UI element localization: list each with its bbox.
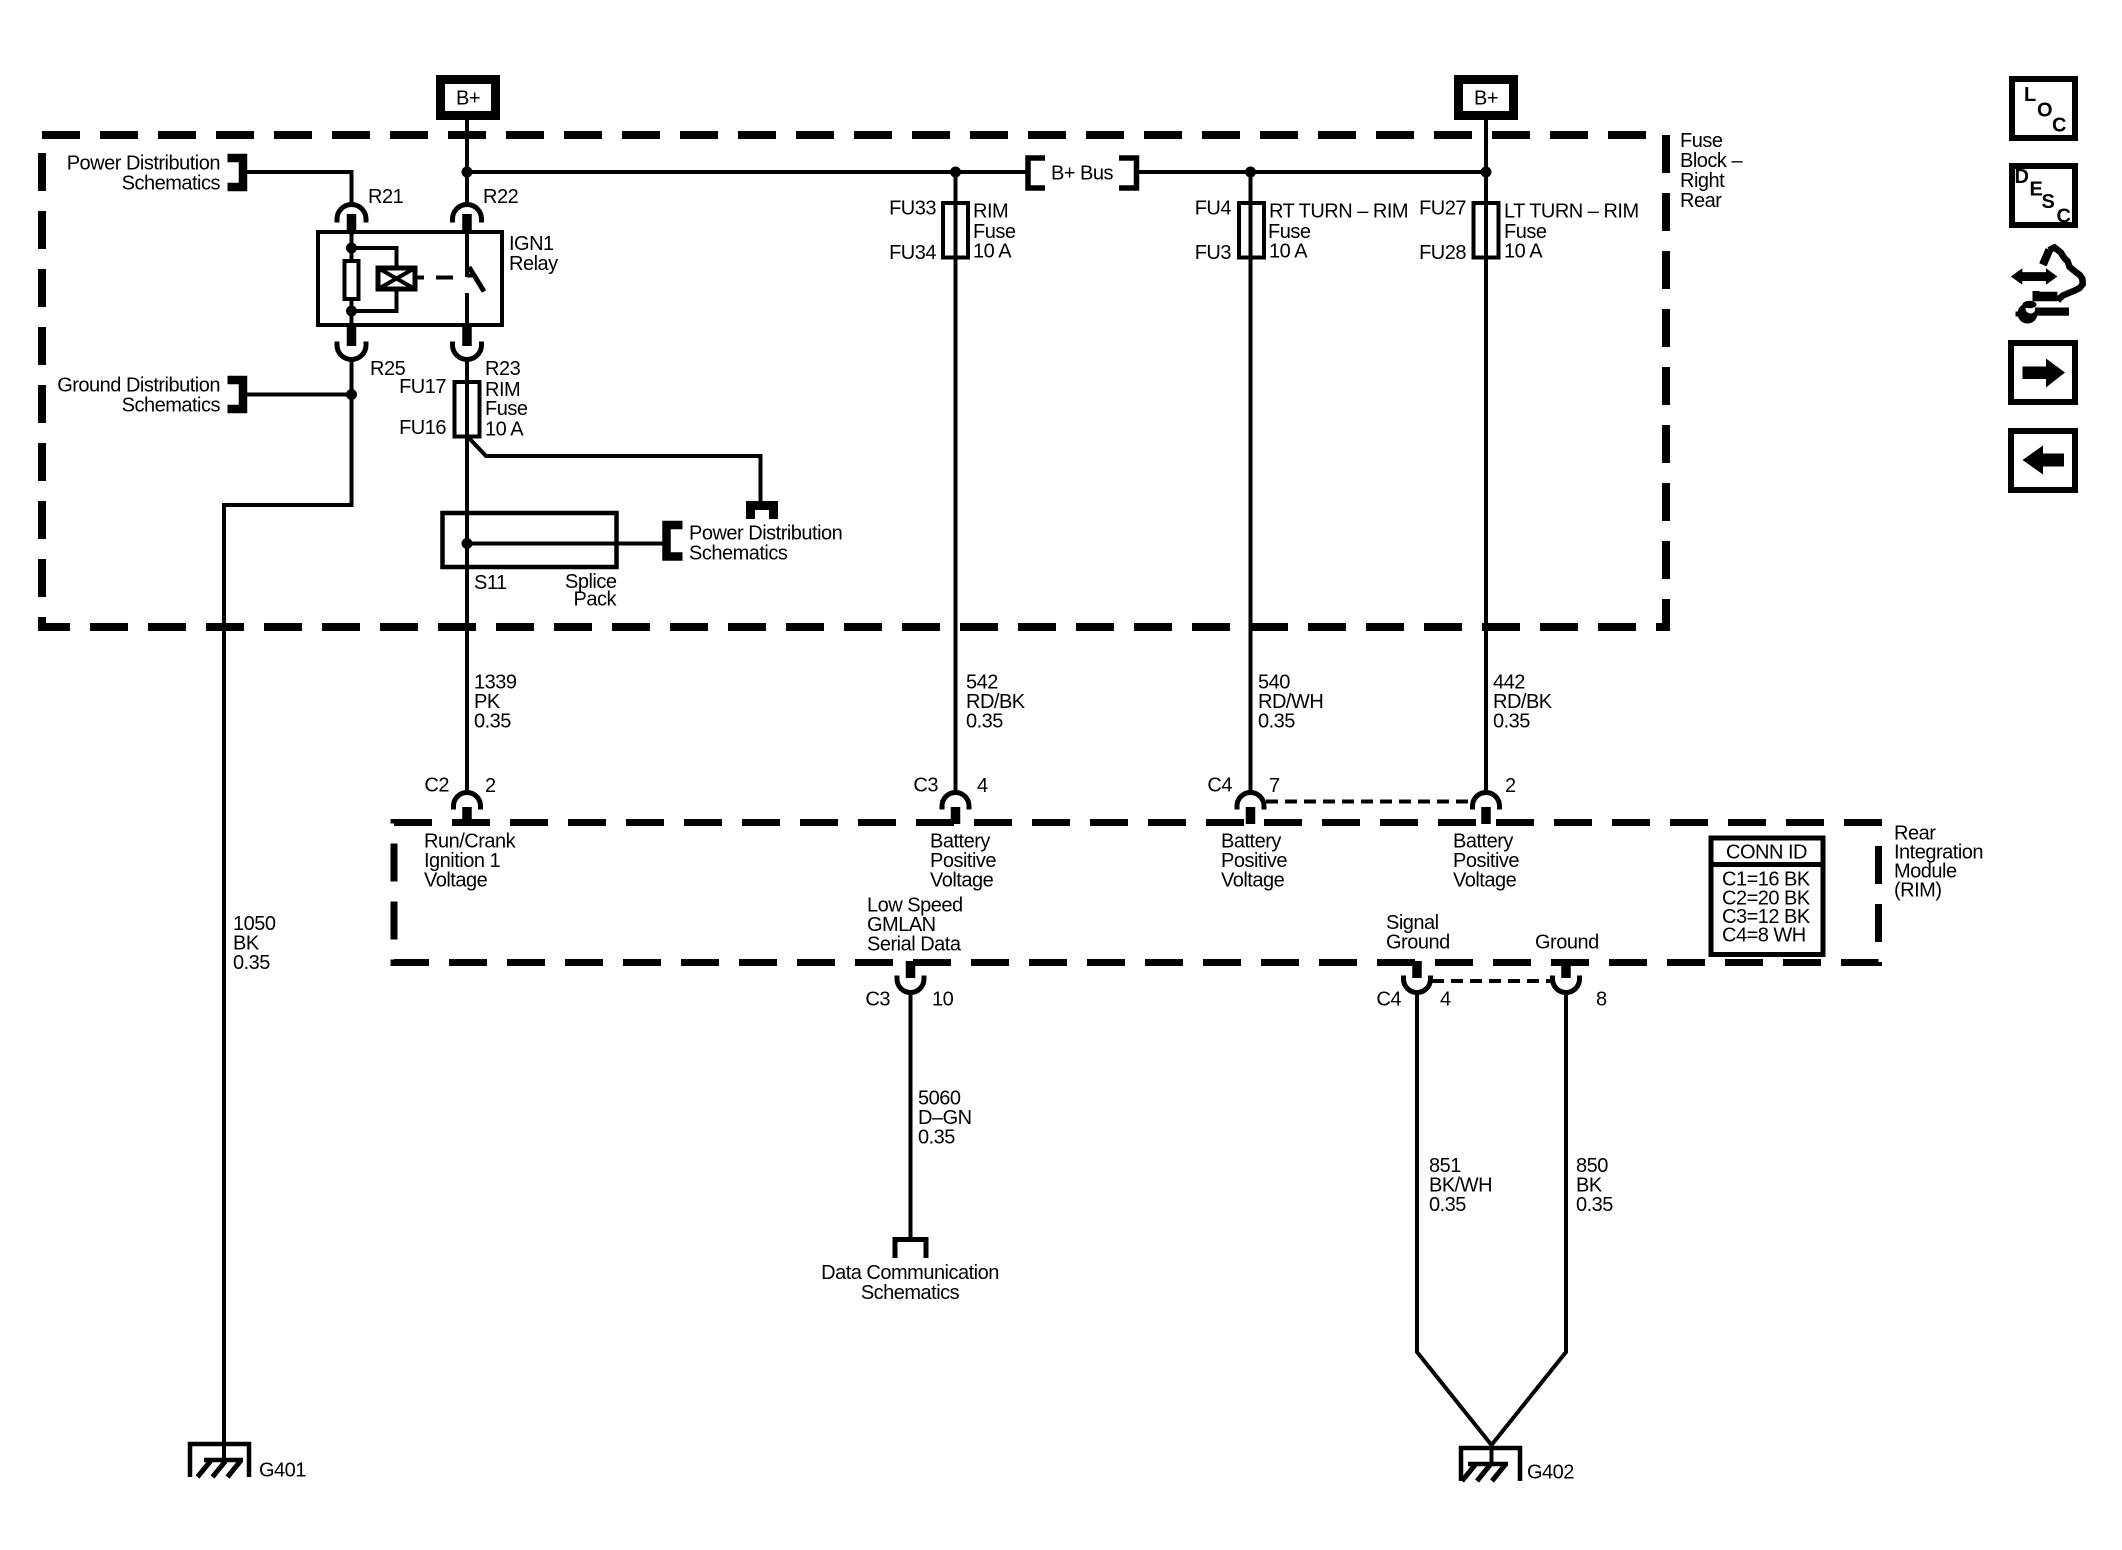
label Power Distribution Schematics (middle)	[689, 523, 842, 565]
svg-text:0.35: 0.35	[1576, 1194, 1613, 1216]
wire label 442 RD/BK 0.35	[1493, 672, 1553, 733]
svg-text:Schematics: Schematics	[689, 543, 788, 565]
wire: relay coil feed	[350, 232, 354, 261]
svg-text:G401: G401	[259, 1460, 306, 1482]
svg-text:B+ Bus: B+ Bus	[1051, 163, 1114, 185]
relay coil X-box	[378, 268, 415, 289]
wire: branch to coil box top	[352, 248, 397, 268]
label Fuse Block - Right Rear	[1680, 130, 1743, 212]
svg-text:Ground: Ground	[1386, 932, 1450, 954]
svg-text:Fuse: Fuse	[1680, 130, 1723, 152]
wire: B+ left down to R22 connector	[465, 120, 469, 205]
connector C4 pin 4 at RIM bottom	[1376, 961, 1451, 1011]
RIM module dashed box	[394, 823, 1879, 963]
relay coil resistor	[345, 261, 359, 299]
wire: col3 bus down through fuse to RIM connector C4	[1249, 172, 1253, 793]
svg-text:FU33: FU33	[889, 198, 936, 220]
svg-text:Schematics: Schematics	[861, 1282, 960, 1304]
svg-text:0.35: 0.35	[1493, 711, 1530, 733]
CONN ID table	[1711, 838, 1823, 955]
svg-text:Right: Right	[1680, 170, 1725, 192]
junction node top of coil	[346, 243, 357, 254]
svg-text:FU28: FU28	[1419, 242, 1466, 264]
connector C4 pin 7 at RIM	[1207, 775, 1280, 825]
svg-text:L: L	[2024, 84, 2036, 106]
wire: S11 to Power Distribution ref bracket	[467, 542, 666, 546]
junction node on bus at col4	[1481, 167, 1492, 178]
svg-text:R21: R21	[368, 186, 404, 208]
svg-text:Relay: Relay	[509, 253, 558, 275]
junction node on bus at col2	[950, 167, 961, 178]
svg-text:0.35: 0.35	[233, 952, 270, 974]
wire: B+ bus horizontal left segment	[467, 170, 1027, 174]
svg-text:FU17: FU17	[399, 376, 446, 398]
svg-text:0.35: 0.35	[966, 711, 1003, 733]
fuse FU27/FU28 LT TURN - RIM Fuse 10A	[1419, 198, 1639, 265]
connector C3 pin 10 at RIM bottom	[865, 961, 953, 1011]
connector pin 2 at RIM	[1473, 775, 1517, 824]
wire: B+ bus horizontal right segment	[1137, 170, 1486, 174]
svg-text:Power Distribution: Power Distribution	[67, 153, 220, 175]
dashed link between pin 7 and pin 2	[1266, 800, 1471, 804]
svg-text:10 A: 10 A	[1269, 241, 1308, 263]
svg-text:Pack: Pack	[574, 589, 618, 611]
svg-text:Fuse: Fuse	[485, 398, 528, 420]
wire: C3-10 down to Data Communication ref	[909, 993, 913, 1238]
svg-text:Ground: Ground	[1535, 932, 1599, 954]
wire label 851 BK/WH 0.35	[1429, 1155, 1492, 1216]
power symbol B+ (left)	[436, 75, 500, 120]
switch contact tick	[467, 274, 474, 278]
svg-text:RT TURN – RIM: RT TURN – RIM	[1269, 201, 1408, 223]
svg-text:S: S	[2042, 191, 2055, 213]
label Data Communication Schematics	[821, 1262, 999, 1304]
svg-text:Ground Distribution: Ground Distribution	[57, 375, 220, 397]
svg-text:FU4: FU4	[1195, 198, 1232, 220]
label Rear Integration Module (RIM)	[1894, 823, 1983, 902]
svg-text:Voltage: Voltage	[424, 870, 488, 892]
svg-text:Serial Data: Serial Data	[867, 934, 962, 956]
junction node at R25 wire	[346, 389, 357, 400]
pin label Battery Positive Voltage (C3-4)	[930, 831, 996, 892]
junction node on bus at col3	[1245, 167, 1256, 178]
svg-text:C3: C3	[913, 775, 938, 797]
splice pack S11 box	[443, 513, 617, 567]
svg-text:FU16: FU16	[399, 417, 446, 439]
svg-text:0.35: 0.35	[1258, 711, 1295, 733]
pin label Battery Positive Voltage (pin 2)	[1453, 831, 1519, 892]
svg-text:Rear: Rear	[1680, 190, 1722, 212]
svg-text:IGN1: IGN1	[509, 233, 554, 255]
svg-text:R23: R23	[485, 358, 521, 380]
connector C3 pin 4 at RIM	[913, 775, 988, 825]
bracket (down legs) of Power Distribution reference	[751, 506, 774, 520]
connector pin 8 at RIM bottom	[1553, 961, 1608, 1011]
pin label Battery Positive Voltage (C4-7)	[1221, 831, 1287, 892]
wire: B+ right down through fuse FU27 to RIM pin 2	[1484, 120, 1488, 793]
off-page reference: Ground Distribution Schematics	[57, 375, 220, 417]
svg-text:4: 4	[977, 775, 988, 797]
fuse FU17/FU16 RIM Fuse 10A	[399, 376, 528, 441]
svg-text:FU3: FU3	[1195, 242, 1232, 264]
wire label 5060 D-GN 0.35	[918, 1088, 972, 1149]
ground G402	[1461, 1448, 1574, 1484]
svg-text:Voltage: Voltage	[1453, 870, 1517, 892]
svg-text:C2: C2	[424, 775, 449, 797]
svg-text:7: 7	[1269, 775, 1280, 797]
wire: R25 down and across to ground run	[224, 360, 352, 1459]
wire: switch fixed contact from R22	[465, 232, 469, 277]
svg-text:R22: R22	[483, 186, 519, 208]
icon arrow left box	[2011, 431, 2075, 490]
svg-text:C4=8 WH: C4=8 WH	[1722, 925, 1806, 947]
icon LOC box	[2012, 79, 2075, 138]
svg-text:C4: C4	[1207, 775, 1232, 797]
connector R22	[453, 186, 519, 232]
svg-text:0.35: 0.35	[474, 711, 511, 733]
connector R21	[337, 186, 404, 232]
wire: R23 down through fuse FU17 to RIM connector C2	[465, 360, 469, 794]
svg-text:2: 2	[485, 775, 496, 797]
bracket left of B+ Bus label	[1028, 158, 1045, 188]
svg-text:0.35: 0.35	[1429, 1194, 1466, 1216]
pin label Run/Crank Ignition 1 Voltage	[424, 831, 517, 892]
bracket of Ground Distribution reference	[228, 380, 244, 409]
icon vehicle with arrows and wrench	[2011, 248, 2083, 324]
svg-text:4: 4	[1440, 989, 1451, 1011]
svg-text:C4: C4	[1376, 989, 1401, 1011]
svg-text:S11: S11	[474, 572, 507, 594]
wire label 1339 PK 0.35	[474, 672, 517, 733]
svg-text:LT TURN – RIM: LT TURN – RIM	[1504, 201, 1639, 223]
svg-text:10 A: 10 A	[1504, 241, 1543, 263]
bracket of S11 Power Distribution reference	[667, 525, 683, 557]
wire label 1050 BK 0.35	[233, 913, 276, 974]
wire: C4-4 down to ground G402	[1417, 993, 1492, 1446]
wire: pin 8 down to ground G402	[1492, 993, 1567, 1446]
wire: branch from FU16 to Power Distribution ref	[468, 437, 761, 501]
wire: col2 bus down through fuse to RIM connector C3	[954, 172, 958, 793]
svg-text:Voltage: Voltage	[1221, 870, 1285, 892]
junction node bottom of coil	[346, 306, 357, 317]
svg-text:10: 10	[932, 989, 954, 1011]
bracket of Data Communication reference	[895, 1240, 926, 1259]
icon arrow right box	[2011, 343, 2075, 402]
svg-text:C: C	[2057, 206, 2071, 228]
connector C2 pin 2 at RIM	[424, 775, 496, 825]
icon DESC box	[2012, 166, 2075, 228]
svg-text:B+: B+	[1474, 88, 1498, 110]
off-page reference: Power Distribution Schematics (top left)	[67, 153, 221, 195]
wire: branch to coil box bottom	[352, 289, 397, 311]
ground G401	[190, 1444, 306, 1482]
fuse block dashed box (Fuse Block - Right Rear)	[42, 135, 1666, 627]
svg-text:B+: B+	[456, 88, 480, 110]
power symbol B+ (right)	[1454, 75, 1518, 120]
svg-text:8: 8	[1596, 989, 1607, 1011]
dashed link between pin 4 and pin 8	[1432, 979, 1551, 983]
label Splice Pack	[565, 571, 617, 611]
pin label Signal Ground	[1386, 912, 1450, 954]
svg-text:Schematics: Schematics	[122, 173, 221, 195]
dashed actuation line	[418, 276, 454, 280]
wire label 542 RD/BK 0.35	[966, 672, 1026, 733]
svg-text:2: 2	[1505, 775, 1516, 797]
pin label Low Speed GMLAN Serial Data	[867, 895, 963, 956]
wire: Power Distribution ref to R21	[243, 172, 352, 205]
svg-text:FU34: FU34	[889, 242, 936, 264]
wire: switch lower terminal	[465, 293, 469, 325]
svg-text:10 A: 10 A	[485, 419, 524, 441]
svg-text:Data Communication: Data Communication	[821, 1262, 999, 1284]
svg-text:FU27: FU27	[1419, 198, 1466, 220]
connector R23	[453, 325, 521, 380]
fuse FU33/FU34 RIM Fuse 10A	[889, 198, 1016, 265]
label IGN1 Relay	[509, 233, 558, 275]
svg-text:0.35: 0.35	[918, 1127, 955, 1149]
svg-text:C: C	[2052, 115, 2066, 137]
svg-text:10 A: 10 A	[973, 241, 1012, 263]
svg-text:(RIM): (RIM)	[1894, 880, 1941, 902]
svg-text:CONN ID: CONN ID	[1726, 842, 1807, 864]
switch blade	[469, 267, 484, 292]
wire: coil bottom	[350, 299, 354, 325]
svg-text:Block –: Block –	[1680, 150, 1743, 172]
wire label 850 BK 0.35	[1576, 1155, 1613, 1216]
svg-text:Power Distribution: Power Distribution	[689, 523, 842, 545]
junction node on bus at col1	[462, 167, 473, 178]
wire: Ground Distribution ref to R25 wire	[243, 393, 352, 397]
svg-text:O: O	[2037, 100, 2052, 122]
svg-text:Voltage: Voltage	[930, 870, 994, 892]
svg-text:G402: G402	[1527, 1462, 1574, 1484]
junction node S11	[462, 538, 473, 549]
connector R25	[337, 325, 406, 380]
svg-text:D: D	[2015, 166, 2029, 188]
bracket of Power Distribution reference	[228, 158, 244, 187]
wire: stub into G402	[1490, 1443, 1494, 1463]
svg-text:C3: C3	[865, 989, 890, 1011]
relay IGN1 box	[318, 232, 502, 325]
wire label 540 RD/WH 0.35	[1258, 672, 1323, 733]
svg-text:Schematics: Schematics	[122, 395, 221, 417]
fuse FU4/FU3 RT TURN - RIM Fuse 10A	[1195, 198, 1408, 265]
svg-text:RIM: RIM	[973, 201, 1008, 223]
bracket right of B+ Bus label	[1119, 158, 1137, 188]
